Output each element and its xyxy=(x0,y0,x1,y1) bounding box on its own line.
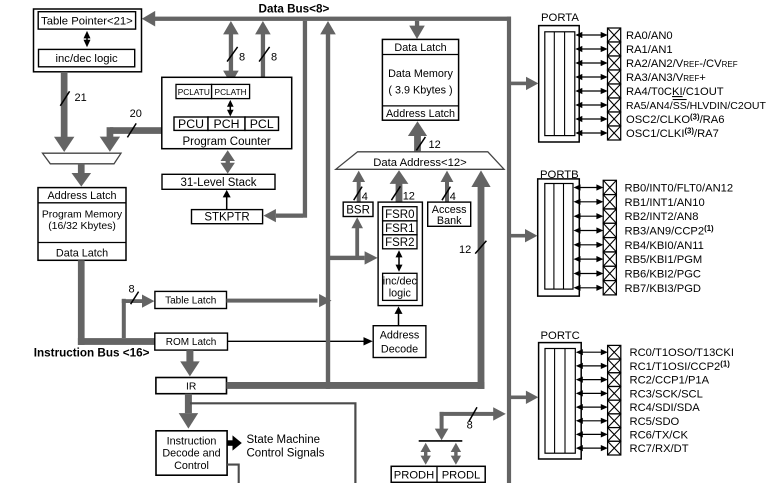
register: PCH xyxy=(208,117,245,131)
svg-text:RA2/AN2/VREF-/CVREF: RA2/AN2/VREF-/CVREF xyxy=(626,58,738,70)
wire: central bus branch into FSR box xyxy=(330,251,378,264)
svg-text:logic: logic xyxy=(389,288,412,300)
svg-text:Data Address<12>: Data Address<12> xyxy=(373,157,467,169)
wire: double gray arrow Program Counter to 31-Level Stack xyxy=(221,150,235,173)
wire: 8-bit riser from instruction bus to Table Latch xyxy=(122,284,155,338)
svg-text:PCLATU: PCLATU xyxy=(178,87,210,97)
svg-text:PRODL: PRODL xyxy=(442,470,481,482)
register: BSR xyxy=(343,202,373,216)
wire: PORTC pin line 3 xyxy=(576,390,608,396)
svg-text:inc/dec: inc/dec xyxy=(383,276,418,288)
wire: Data Bus trunk (top horizontal, turns down right side) xyxy=(142,11,511,483)
register: Access Bank xyxy=(428,202,471,227)
svg-text:RB6/KBI2/PGC: RB6/KBI2/PGC xyxy=(625,269,701,281)
svg-text:PORTC: PORTC xyxy=(541,330,580,342)
wire: line from Instruction Decode to bottom xyxy=(227,465,239,483)
svg-text:RB5/KBI1/PGM: RB5/KBI1/PGM xyxy=(625,254,703,266)
block: inc/dec logic xyxy=(39,49,135,66)
pin pad: PORTC pin 6 (crossed box) xyxy=(608,428,621,442)
register: FSR2 xyxy=(383,235,417,249)
svg-text:RB3/AN9/CCP2(1): RB3/AN9/CCP2(1) xyxy=(625,224,715,238)
wire: PORTB pin line 4 xyxy=(574,242,604,248)
wire: data bus to PCLATU/PCLATH (double arrow, 8) xyxy=(223,21,245,84)
wire: PORTB pin line 5 xyxy=(574,256,604,262)
mux: program address multiplexer (trapezoid) xyxy=(43,153,122,164)
pin pad: PORTC pin 1 (crossed box) xyxy=(608,359,621,373)
register: PRODH PRODL xyxy=(391,466,485,482)
svg-text:4: 4 xyxy=(450,191,456,203)
pin pad: PORTA pin 7 (crossed box) xyxy=(608,126,621,140)
svg-text:Control Signals: Control Signals xyxy=(247,447,325,459)
block: Program Counter outer box xyxy=(162,77,292,148)
svg-text:PCL: PCL xyxy=(250,117,274,131)
register: PCLATU xyxy=(176,84,212,98)
svg-text:Data Memory: Data Memory xyxy=(388,68,453,80)
wire: data bus arrow into PORTB xyxy=(510,229,537,242)
svg-text:Bank: Bank xyxy=(437,215,462,227)
svg-text:20: 20 xyxy=(130,108,142,120)
pin pad: PORTA pin 4 (crossed box) xyxy=(608,84,621,98)
register: FSR1 xyxy=(383,221,417,235)
wire: PORTC pin line 5 xyxy=(576,418,608,424)
block: PORTA port box xyxy=(539,12,580,142)
wire: PORTA pin line 1 xyxy=(575,46,607,52)
wire: STKPTR to stack (black arrow) xyxy=(223,190,231,210)
block: 31-Level Stack xyxy=(162,174,275,189)
wire: Address Decode to FSR inc/dec logic (black arrow) xyxy=(395,306,403,325)
svg-text:RC6/TX/CK: RC6/TX/CK xyxy=(630,429,689,441)
svg-text:Data Latch: Data Latch xyxy=(56,247,108,259)
wire: PORTA pin line 7 xyxy=(575,130,607,136)
pin pad: PORTB pin 0 (crossed box) xyxy=(603,180,616,194)
pin pad: PORTB pin 3 (crossed box) xyxy=(603,223,616,237)
svg-text:Address Latch: Address Latch xyxy=(386,108,455,120)
pin pad: PORTA pin 1 (crossed box) xyxy=(608,42,621,56)
svg-text:FSR0: FSR0 xyxy=(385,209,414,221)
svg-text:Decode and: Decode and xyxy=(162,448,220,460)
svg-text:STKPTR: STKPTR xyxy=(204,211,249,223)
wire: Access Bank to Data Address mux (4) xyxy=(441,171,456,203)
wire: Table Latch output to central bus xyxy=(227,294,332,307)
wire: control signals black arrow xyxy=(227,435,242,450)
wire: PORTA pin line 4 xyxy=(575,88,607,94)
svg-text:Address: Address xyxy=(380,330,420,342)
block: Instruction Decode and Control xyxy=(156,431,227,475)
svg-text:12: 12 xyxy=(403,191,415,203)
wire: PORTB pin line 3 xyxy=(574,227,604,233)
wire: riser from FSR branch up into BSR xyxy=(351,217,363,256)
wire: PORTB pin line 1 xyxy=(574,199,604,205)
svg-text:12: 12 xyxy=(429,139,441,151)
register: STKPTR xyxy=(192,210,263,224)
wire: PORTC pin line 7 xyxy=(576,445,608,451)
svg-text:12: 12 xyxy=(459,244,471,256)
wire: PORTA pin line 0 xyxy=(575,32,607,38)
wire: thin line from IR branch down to ALU area xyxy=(190,403,355,483)
svg-text:RC2/CCP1/P1A: RC2/CCP1/P1A xyxy=(630,375,710,387)
wire: line above PRODH/PRODL xyxy=(419,440,463,442)
wire: BSR to Data Address mux (4) xyxy=(352,171,368,203)
svg-text:Address Latch: Address Latch xyxy=(47,190,116,202)
svg-text:PORTA: PORTA xyxy=(541,12,579,24)
svg-text:RA5/AN4/SS/HLVDIN/C2OUT: RA5/AN4/SS/HLVDIN/C2OUT xyxy=(626,100,766,112)
svg-text:( 3.9 Kbytes ): ( 3.9 Kbytes ) xyxy=(388,85,452,97)
block: Program Memory (Address Latch / 16-32 Kbytes / Data Latch) xyxy=(38,188,126,261)
svg-text:PCLATH: PCLATH xyxy=(215,87,247,97)
svg-text:State Machine: State Machine xyxy=(247,434,321,446)
pin pad: PORTC pin 3 (crossed box) xyxy=(608,387,621,401)
wire: Data Address mux to Address Latch arrow (12) xyxy=(408,121,441,152)
block: PORTC port box xyxy=(539,330,582,459)
pin pad: PORTB pin 7 (crossed box) xyxy=(603,281,616,295)
wire: double arrow to PRODL xyxy=(451,443,461,465)
pin pad: PORTA pin 5 (crossed box) xyxy=(608,98,621,112)
wire: PORTC pin line 2 xyxy=(576,377,608,383)
pin pad: PORTC pin 5 (crossed box) xyxy=(608,414,621,428)
svg-text:RA1/AN1: RA1/AN1 xyxy=(626,44,673,56)
svg-text:RC3/SCK/SCL: RC3/SCK/SCL xyxy=(630,388,703,400)
svg-text:PCU: PCU xyxy=(178,117,204,131)
wire: PORTC pin line 1 xyxy=(576,363,608,369)
label: State Machine Control Signals xyxy=(247,434,325,459)
wire: mux to Address Latch arrow xyxy=(72,164,92,187)
pin pad: PORTC pin 2 (crossed box) xyxy=(608,373,621,387)
svg-text:Data Bus<8>: Data Bus<8> xyxy=(259,2,330,15)
svg-text:Program Memory: Program Memory xyxy=(42,210,123,221)
wire: PORTC pin line 6 xyxy=(576,431,608,437)
pin pad: PORTC pin 7 (crossed box) xyxy=(608,441,621,455)
svg-text:PCH: PCH xyxy=(214,117,240,131)
wire: data bus arrow into PORTA xyxy=(510,77,538,90)
svg-text:Data Latch: Data Latch xyxy=(394,42,446,54)
svg-text:Instruction Bus <16>: Instruction Bus <16> xyxy=(34,347,150,360)
svg-text:FSR1: FSR1 xyxy=(385,223,414,235)
wire: PORTC pin line 0 xyxy=(576,349,608,355)
wire: FSR bank to Data Address mux (12) xyxy=(390,170,415,202)
svg-text:Table Latch: Table Latch xyxy=(165,296,216,307)
svg-text:Decode: Decode xyxy=(381,344,418,356)
svg-text:OSC1/CLKI(3)/RA7: OSC1/CLKI(3)/RA7 xyxy=(626,126,719,140)
svg-text:PRODH: PRODH xyxy=(394,470,434,482)
svg-text:RB4/KBI0/AN11: RB4/KBI0/AN11 xyxy=(625,240,704,252)
block: Data Memory (Data Latch / 3.9 Kbytes / Address Latch) xyxy=(382,39,458,120)
register: Table Pointer<21> xyxy=(38,12,135,29)
pin pad: PORTB pin 5 (crossed box) xyxy=(603,252,616,266)
wire: 20-bit bus from Program Counter to mux xyxy=(100,108,163,152)
svg-text:8: 8 xyxy=(271,51,277,63)
wire: ROM Latch to IR arrow xyxy=(180,350,200,376)
wire: data bus arrow into PORTC xyxy=(510,391,538,404)
svg-text:inc/dec logic: inc/dec logic xyxy=(56,53,119,65)
svg-text:FSR2: FSR2 xyxy=(385,237,414,249)
svg-text:RB0/INT0/FLT0/AN12: RB0/INT0/FLT0/AN12 xyxy=(625,183,734,195)
wire: data bus branch down to STKPTR (left arrow) xyxy=(264,21,308,222)
register: IR xyxy=(156,378,227,394)
block: PORTB port box xyxy=(538,169,580,296)
wire: IR output bus right then up to Data Address mux (12) xyxy=(227,170,491,389)
pin pad: PORTA pin 6 (crossed box) xyxy=(608,112,621,126)
svg-text:Instruction: Instruction xyxy=(167,435,217,447)
svg-text:RC5/SDO: RC5/SDO xyxy=(630,416,680,428)
block: Address Decode xyxy=(373,326,426,358)
svg-text:RB7/KBI3/PGD: RB7/KBI3/PGD xyxy=(625,283,701,295)
block: Table Pointer / inc-dec logic outer box xyxy=(34,9,142,72)
svg-text:OSC2/CLKO(3)/RA6: OSC2/CLKO(3)/RA6 xyxy=(626,112,724,126)
svg-text:RA0/AN0: RA0/AN0 xyxy=(626,30,673,42)
register: ROM Latch xyxy=(155,333,228,350)
svg-text:RC0/T1OSO/T13CKI: RC0/T1OSO/T13CKI xyxy=(630,347,734,359)
wire: double arrow to PRODH xyxy=(421,443,431,465)
block: FSR outer box xyxy=(378,202,422,306)
pin pad: PORTB pin 1 (crossed box) xyxy=(603,195,616,209)
register: Table Latch xyxy=(155,291,227,308)
wire: 21-bit address bus from Table Pointer to mux xyxy=(54,72,87,152)
svg-text:RC7/RX/DT: RC7/RX/DT xyxy=(630,443,689,455)
svg-text:IR: IR xyxy=(186,381,196,392)
svg-text:RA3/AN3/VREF+: RA3/AN3/VREF+ xyxy=(626,72,706,84)
register: FSR0 xyxy=(383,207,417,221)
wire: data bus to PCL (double arrow, 8) xyxy=(255,21,277,116)
wire: PORTA pin line 3 xyxy=(575,74,607,80)
mux: Data Address<12> trapezoid xyxy=(336,152,504,170)
svg-text:8: 8 xyxy=(239,51,245,63)
svg-text:RB1/INT1/AN10: RB1/INT1/AN10 xyxy=(625,197,705,209)
svg-text:ROM Latch: ROM Latch xyxy=(166,337,217,348)
wire: central data bus (vertical) with up arrow into Data Bus xyxy=(320,21,336,389)
svg-text:RB2/INT2/AN8: RB2/INT2/AN8 xyxy=(625,211,699,223)
svg-text:Program Counter: Program Counter xyxy=(182,136,270,148)
pin pad: PORTA pin 2 (crossed box) xyxy=(608,56,621,70)
wire: data bus down into Data Memory data latch xyxy=(409,21,425,39)
wire: PORTA pin line 5 xyxy=(575,102,607,108)
svg-text:Table Pointer<21>: Table Pointer<21> xyxy=(41,16,133,28)
pin pad: PORTB pin 6 (crossed box) xyxy=(603,266,616,280)
svg-text:8: 8 xyxy=(129,284,135,296)
pin pad: PORTC pin 4 (crossed box) xyxy=(608,400,621,414)
block: FSR inc/dec logic xyxy=(383,273,418,300)
wire: ROM Latch to Address Decode (thin arrow) xyxy=(228,337,373,345)
wire: PORTA pin line 6 xyxy=(575,116,607,122)
svg-text:Access: Access xyxy=(432,204,467,216)
pin pad: PORTB pin 2 (crossed box) xyxy=(603,209,616,223)
pin pad: PORTB pin 4 (crossed box) xyxy=(603,238,616,252)
wire: PORTC pin line 4 xyxy=(576,404,608,410)
wire: PORTB pin line 7 xyxy=(574,285,604,291)
wire: 8-bit branch from right bus down to PRODH/PRODL xyxy=(435,407,506,440)
pin pad: PORTA pin 0 (crossed box) xyxy=(608,28,621,42)
svg-text:RC4/SDI/SDA: RC4/SDI/SDA xyxy=(630,402,701,414)
svg-text:31-Level Stack: 31-Level Stack xyxy=(180,177,256,189)
register: PCU xyxy=(174,117,208,131)
svg-text:(16/32 Kbytes): (16/32 Kbytes) xyxy=(48,221,116,232)
wire: instruction bus from Program Memory data latch to ROM Latch xyxy=(78,260,155,345)
register: PCLATH xyxy=(212,84,250,98)
wire: double arrow PCLATH to PCH xyxy=(227,100,234,117)
wire: PORTB pin line 2 xyxy=(574,213,604,219)
wire: IR to Instruction Decode arrow xyxy=(179,394,199,429)
wire: double arrow Table Pointer to inc/dec logic xyxy=(84,31,91,47)
svg-text:RC1/T1OSI/CCP2(1): RC1/T1OSI/CCP2(1) xyxy=(630,359,731,373)
svg-text:8: 8 xyxy=(467,420,473,432)
svg-text:4: 4 xyxy=(362,191,368,203)
register: PCL xyxy=(245,117,279,131)
wire: double arrow FSR2 to inc/dec logic xyxy=(396,250,403,272)
wire: PORTA pin line 2 xyxy=(575,60,607,66)
svg-text:Control: Control xyxy=(174,460,209,472)
wire: PORTB pin line 0 xyxy=(574,184,604,190)
svg-text:BSR: BSR xyxy=(346,204,370,216)
pin pad: PORTA pin 3 (crossed box) xyxy=(608,70,621,84)
pin pad: PORTC pin 0 (crossed box) xyxy=(608,345,621,359)
wire: PORTB pin line 6 xyxy=(574,270,604,276)
svg-text:RA4/T0CKI/C1OUT: RA4/T0CKI/C1OUT xyxy=(626,86,724,98)
svg-text:21: 21 xyxy=(75,92,87,104)
